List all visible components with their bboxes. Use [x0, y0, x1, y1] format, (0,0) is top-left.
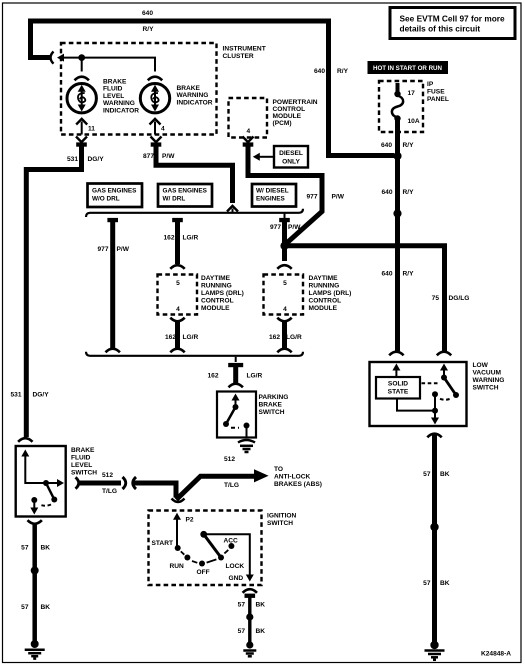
svg-text:11: 11: [88, 126, 95, 133]
svg-text:FLUID: FLUID: [103, 86, 123, 93]
svg-text:10A: 10A: [408, 118, 420, 125]
svg-text:PARKING: PARKING: [259, 394, 289, 401]
svg-text:(PCM): (PCM): [273, 120, 292, 127]
svg-text:R/Y: R/Y: [403, 189, 415, 196]
svg-text:CONTROL: CONTROL: [273, 106, 306, 113]
svg-text:P/W: P/W: [162, 153, 175, 160]
svg-text:BK: BK: [41, 604, 51, 611]
svg-text:MODULE: MODULE: [273, 113, 302, 120]
svg-text:BK: BK: [440, 580, 450, 587]
svg-text:5: 5: [283, 280, 287, 287]
svg-text:162: 162: [163, 235, 174, 242]
svg-text:VACUUM: VACUUM: [473, 370, 502, 377]
svg-text:MODULE: MODULE: [309, 305, 338, 312]
svg-text:162: 162: [165, 334, 176, 341]
svg-text:5: 5: [176, 280, 180, 287]
svg-text:4: 4: [283, 306, 287, 313]
svg-text:MODULE: MODULE: [201, 305, 230, 312]
svg-text:IGNITION: IGNITION: [267, 513, 297, 520]
svg-text:ACC: ACC: [224, 538, 239, 545]
svg-text:640: 640: [381, 189, 392, 196]
svg-text:4: 4: [161, 126, 165, 133]
svg-text:CLUSTER: CLUSTER: [223, 53, 254, 60]
svg-text:LOW: LOW: [473, 362, 489, 369]
svg-text:977: 977: [97, 246, 108, 253]
svg-text:LG/R: LG/R: [286, 334, 302, 341]
svg-text:STATE: STATE: [388, 389, 409, 396]
svg-text:W/O DRL: W/O DRL: [92, 196, 120, 203]
svg-text:GAS ENGINES: GAS ENGINES: [92, 188, 137, 195]
svg-text:512: 512: [224, 456, 235, 463]
svg-text:WARNING: WARNING: [177, 92, 209, 99]
svg-text:BRAKE: BRAKE: [259, 402, 283, 409]
svg-text:FUSE: FUSE: [427, 89, 445, 96]
svg-text:ONLY: ONLY: [282, 159, 300, 166]
svg-text:P2: P2: [186, 517, 194, 524]
svg-text:TO: TO: [274, 466, 283, 473]
svg-text:57: 57: [238, 628, 246, 635]
svg-text:977: 977: [270, 224, 281, 231]
svg-text:INDICATOR: INDICATOR: [103, 107, 139, 114]
svg-text:SWITCH: SWITCH: [473, 385, 499, 392]
svg-text:T/LG: T/LG: [102, 488, 117, 495]
svg-text:DIESEL: DIESEL: [279, 150, 303, 157]
svg-text:BK: BK: [440, 471, 450, 478]
svg-text:SOLID: SOLID: [388, 381, 408, 388]
svg-text:See EVTM Cell 97 for more: See EVTM Cell 97 for more: [400, 14, 506, 24]
svg-text:R/Y: R/Y: [403, 271, 415, 278]
svg-text:T/LG: T/LG: [224, 482, 239, 489]
svg-text:FLUID: FLUID: [71, 455, 91, 462]
svg-text:OFF: OFF: [197, 569, 210, 576]
svg-text:SWITCH: SWITCH: [267, 520, 293, 527]
svg-text:START: START: [152, 540, 174, 547]
svg-text:BK: BK: [256, 602, 266, 609]
svg-text:4: 4: [247, 128, 251, 135]
svg-text:640: 640: [314, 68, 325, 75]
svg-text:RUNNING: RUNNING: [201, 283, 232, 290]
svg-text:LG/R: LG/R: [183, 334, 199, 341]
svg-text:57: 57: [238, 602, 246, 609]
svg-text:57: 57: [21, 545, 29, 552]
svg-text:75: 75: [432, 295, 440, 302]
svg-text:DAYTIME: DAYTIME: [201, 275, 231, 282]
svg-text:W/ DIESEL: W/ DIESEL: [256, 188, 289, 195]
svg-text:P/W: P/W: [117, 246, 130, 253]
svg-text:RUN: RUN: [170, 563, 185, 570]
svg-text:877: 877: [143, 153, 154, 160]
svg-text:17: 17: [408, 90, 416, 97]
svg-text:details of this circuit: details of this circuit: [400, 24, 481, 34]
svg-text:P/W: P/W: [332, 194, 345, 201]
svg-text:57: 57: [423, 471, 431, 478]
svg-text:R/Y: R/Y: [403, 142, 415, 149]
svg-text:BRAKES (ABS): BRAKES (ABS): [274, 481, 322, 488]
svg-text:SWITCH: SWITCH: [71, 470, 97, 477]
svg-text:BRAKE: BRAKE: [71, 447, 95, 454]
svg-text:W/ DRL: W/ DRL: [163, 196, 186, 203]
svg-text:DG/Y: DG/Y: [88, 156, 105, 163]
svg-text:4: 4: [176, 306, 180, 313]
svg-text:512: 512: [102, 472, 113, 479]
svg-text:R/Y: R/Y: [337, 68, 349, 75]
svg-text:531: 531: [10, 392, 21, 399]
svg-text:977: 977: [306, 194, 317, 201]
svg-text:162: 162: [269, 334, 280, 341]
svg-text:DG/Y: DG/Y: [33, 392, 50, 399]
svg-text:640: 640: [381, 142, 392, 149]
svg-text:640: 640: [142, 10, 153, 17]
svg-text:57: 57: [423, 580, 431, 587]
svg-text:ANTI-LOCK: ANTI-LOCK: [274, 474, 310, 481]
svg-text:CONTROL: CONTROL: [201, 298, 234, 305]
svg-text:PANEL: PANEL: [427, 96, 449, 103]
svg-text:GND: GND: [229, 575, 244, 582]
svg-text:POWERTRAIN: POWERTRAIN: [273, 99, 318, 106]
svg-text:WARNING: WARNING: [103, 100, 135, 107]
svg-text:INDICATOR: INDICATOR: [177, 99, 213, 106]
svg-text:LEVEL: LEVEL: [103, 93, 124, 100]
svg-text:WARNING: WARNING: [473, 377, 505, 384]
svg-text:LAMPS (DRL): LAMPS (DRL): [201, 290, 244, 297]
svg-text:DAYTIME: DAYTIME: [309, 275, 339, 282]
svg-text:CONTROL: CONTROL: [309, 298, 342, 305]
svg-text:HOT IN START OR RUN: HOT IN START OR RUN: [373, 65, 443, 72]
svg-text:R/Y: R/Y: [143, 26, 155, 33]
svg-text:57: 57: [21, 604, 29, 611]
svg-text:IP: IP: [427, 81, 434, 88]
svg-text:640: 640: [381, 271, 392, 278]
svg-text:BK: BK: [41, 545, 51, 552]
svg-text:162: 162: [207, 373, 218, 380]
svg-text:LG/R: LG/R: [247, 373, 263, 380]
svg-text:DG/LG: DG/LG: [449, 295, 470, 302]
svg-text:K24848-A: K24848-A: [481, 651, 511, 658]
svg-text:INSTRUMENT: INSTRUMENT: [223, 46, 266, 53]
svg-text:531: 531: [67, 156, 78, 163]
svg-text:GAS ENGINES: GAS ENGINES: [163, 188, 208, 195]
svg-text:LG/R: LG/R: [183, 235, 199, 242]
svg-text:BRAKE: BRAKE: [103, 79, 127, 86]
svg-text:SWITCH: SWITCH: [259, 409, 285, 416]
svg-text:BK: BK: [256, 628, 266, 635]
svg-text:LOCK: LOCK: [226, 563, 245, 570]
svg-text:P/W: P/W: [288, 224, 301, 231]
svg-text:RUNNING: RUNNING: [309, 283, 340, 290]
svg-text:LAMPS (DRL): LAMPS (DRL): [309, 290, 352, 297]
svg-text:BRAKE: BRAKE: [177, 85, 201, 92]
svg-text:LEVEL: LEVEL: [71, 462, 92, 469]
svg-text:ENGINES: ENGINES: [256, 196, 286, 203]
